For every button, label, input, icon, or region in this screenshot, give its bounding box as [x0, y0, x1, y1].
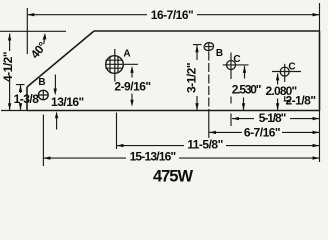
extension line below hole B: [42, 115, 44, 167]
dimension 15-13/16 line: [43, 157, 319, 159]
arrowheads 5-1/8: [232, 117, 239, 120]
arrowhead 2-1/8 left: [284, 99, 291, 102]
part outline: chamfer 40deg: [27, 31, 94, 87]
dimension 16-7/16 line: [27, 14, 319, 16]
arrowheads 2-9/16: [130, 66, 133, 73]
hole B lower-left symbol: [38, 90, 48, 99]
svg-text:2-1/8": 2-1/8": [285, 94, 315, 108]
arrowheads 11-5/8: [117, 144, 124, 147]
leader arrow 40deg: [44, 35, 45, 44]
arrowheads 1-3/8: [19, 85, 22, 92]
arrowheads 13/16: [54, 89, 57, 96]
svg-text:6-7/16": 6-7/16": [244, 125, 280, 139]
extension line: right edge extended up: [319, 3, 321, 31]
arrowhead 40deg: [43, 33, 47, 40]
svg-text:C: C: [288, 61, 295, 72]
dimension 11-5/8 line: [117, 145, 320, 147]
hole B top symbol: [203, 42, 214, 52]
dimension 13/16 arrows: [54, 75, 56, 91]
dimension 6-7/16 line: [209, 131, 320, 133]
hole C2: [280, 67, 289, 76]
extension line: left edge extended up: [26, 8, 28, 54]
svg-text:3-1/2": 3-1/2": [185, 63, 199, 93]
svg-text:C: C: [233, 54, 240, 65]
svg-text:15-13/16": 15-13/16": [130, 149, 176, 163]
dimension 1-3/8: [16, 85, 25, 111]
arrowheads 16-7/16: [27, 13, 34, 16]
arrowheads 3-1/2: [195, 45, 198, 52]
extension line: bottom edge extended left: [1, 110, 27, 112]
extension line below hole A: [116, 113, 118, 150]
arrowheads 4-1/2: [8, 34, 11, 41]
hole B top centerline down: [208, 52, 210, 111]
svg-text:475W: 475W: [153, 167, 194, 185]
part outline: left edge: [26, 87, 28, 111]
dimension 2-9/16 arrows: [131, 70, 133, 78]
svg-text:1-3/8: 1-3/8: [14, 92, 40, 106]
svg-text:16-7/16": 16-7/16": [151, 8, 193, 22]
part outline: bottom edge: [27, 110, 320, 112]
svg-text:A: A: [123, 49, 130, 60]
arrowheads 2.530: [243, 66, 246, 73]
dimension 3-1/2: [193, 45, 202, 111]
svg-text:13/16": 13/16": [51, 95, 84, 109]
svg-text:5-1/8": 5-1/8": [259, 111, 286, 125]
svg-text:B: B: [38, 77, 45, 88]
arrowheads 2.080: [276, 73, 279, 80]
part outline: right edge: [319, 31, 321, 111]
hole C1: [227, 61, 236, 70]
svg-text:2.530": 2.530": [232, 83, 261, 97]
dimension 2-1/8 leader: [284, 100, 288, 102]
svg-text:B: B: [216, 48, 223, 59]
svg-text:4-1/2": 4-1/2": [1, 52, 15, 82]
arrowheads 6-7/16: [209, 131, 216, 134]
part outline: top edge: [94, 30, 320, 32]
svg-text:11-5/8": 11-5/8": [187, 137, 223, 151]
hole A: [106, 56, 124, 74]
svg-text:2-9/16": 2-9/16": [114, 80, 150, 94]
dimension 2.080 arrows: [277, 74, 279, 85]
dimension 5-1/8 line: [232, 118, 320, 120]
dimension 4-1/2 line: [9, 34, 11, 111]
arrowheads 15-13/16: [43, 156, 50, 159]
extension line: top edge extended left: [0, 30, 66, 32]
extension line: right edge extended down: [319, 111, 321, 163]
dimension 2.530 arrows: [244, 66, 246, 79]
